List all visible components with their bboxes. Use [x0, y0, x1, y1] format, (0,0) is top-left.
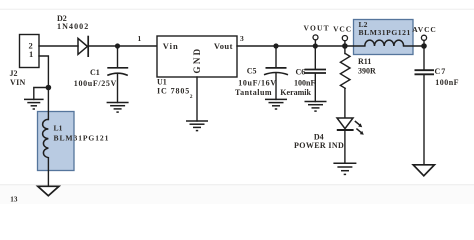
svg-text:Keramik: Keramik: [280, 88, 311, 97]
svg-text:3: 3: [240, 34, 244, 43]
svg-text:100nF: 100nF: [294, 79, 315, 88]
capacitor C6: [280, 46, 326, 102]
svg-text:10uF/16V: 10uF/16V: [238, 79, 276, 88]
svg-text:BLM31PG121: BLM31PG121: [54, 133, 110, 142]
node VOUT terminal: [304, 24, 330, 47]
junction C1: [115, 43, 120, 48]
regulator U1: [157, 36, 237, 96]
wire R11 to D4: [344, 88, 346, 118]
diode D2: [57, 14, 89, 57]
ground C6: [305, 102, 327, 112]
svg-text:2: 2: [190, 94, 193, 100]
junction VCC: [342, 43, 348, 49]
svg-text:1: 1: [138, 34, 142, 43]
junction L1: [46, 85, 52, 91]
ferrite bead L1 coil: [43, 119, 49, 157]
connector J2: [10, 35, 40, 88]
svg-text:100uF/25V: 100uF/25V: [74, 79, 117, 88]
ground D4: [333, 163, 356, 174]
svg-text:1N4002: 1N4002: [57, 22, 89, 31]
svg-text:R11: R11: [358, 57, 371, 66]
svg-text:C5: C5: [247, 67, 257, 76]
svg-text:C1: C1: [90, 68, 100, 77]
ground U1: [186, 121, 208, 131]
svg-text:U1: U1: [157, 78, 167, 87]
svg-text:AVCC: AVCC: [412, 25, 437, 34]
wire U1 Vout to L2: [237, 45, 365, 47]
svg-text:VOUT: VOUT: [304, 24, 330, 33]
ground C5: [265, 99, 287, 109]
svg-text:L1: L1: [54, 124, 63, 133]
svg-text:Tantalum: Tantalum: [235, 88, 272, 97]
svg-text:GND: GND: [192, 47, 202, 74]
svg-text:Vin: Vin: [163, 41, 179, 51]
ferrite bead L2 box: [354, 20, 414, 55]
junction C6: [313, 43, 318, 48]
svg-text:13: 13: [10, 196, 18, 204]
chassis ground left: [38, 186, 59, 195]
svg-text:VCC: VCC: [333, 24, 352, 33]
svg-text:BLM31PG121: BLM31PG121: [359, 28, 411, 37]
svg-text:IC 7805: IC 7805: [157, 87, 190, 96]
junction AVCC: [421, 43, 427, 49]
ground stub left: [24, 88, 48, 110]
svg-text:100nF: 100nF: [435, 78, 459, 87]
resistor R11: [340, 46, 376, 88]
ferrite bead L2 coil: [365, 40, 404, 46]
capacitor C5: [235, 46, 288, 99]
svg-text:POWER IND: POWER IND: [294, 141, 344, 150]
node VCC terminal: [333, 24, 352, 46]
wire D4 to ground: [344, 130, 346, 163]
chassis ground right: [413, 165, 434, 176]
capacitor C7: [415, 46, 460, 165]
svg-text:C7: C7: [435, 67, 447, 76]
LED D4: [294, 118, 364, 150]
svg-text:Vout: Vout: [214, 41, 233, 51]
svg-text:1: 1: [29, 49, 33, 59]
svg-text:J2: J2: [10, 69, 18, 78]
junction C5: [273, 43, 278, 48]
svg-text:C6: C6: [296, 67, 306, 76]
wire J2 pin1 down to L1: [39, 56, 48, 120]
wire U1 GND pin: [196, 77, 198, 121]
svg-text:VIN: VIN: [10, 78, 26, 87]
ground C1: [107, 103, 129, 113]
wire diode to U1: [88, 45, 157, 47]
wire J2 pin2 to diode: [39, 45, 78, 47]
svg-text:390R: 390R: [358, 67, 376, 76]
capacitor C1: [74, 46, 128, 103]
ferrite bead L1 box: [38, 112, 110, 171]
node AVCC terminal: [412, 25, 437, 46]
